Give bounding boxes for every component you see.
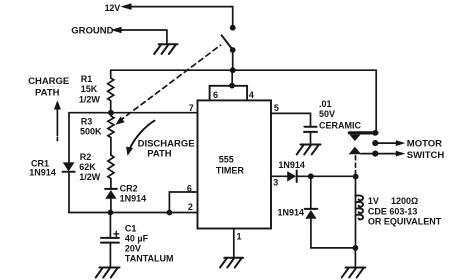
wire switch to supply rail <box>232 50 234 70</box>
svg-text:CDE 603-13: CDE 603-13 <box>368 206 418 216</box>
MOTOR terminal <box>372 140 378 146</box>
svg-text:GROUND: GROUND <box>71 26 113 37</box>
node bar junction <box>372 130 378 136</box>
svg-text:6: 6 <box>213 90 218 100</box>
node C1 junction <box>108 210 114 216</box>
ground symbol pin1 <box>220 258 243 268</box>
diode D1 1N914 series <box>287 171 296 181</box>
discharge curved arrow <box>129 121 154 150</box>
svg-text:R2: R2 <box>80 152 92 162</box>
wire pin3 to coil branch <box>297 175 356 177</box>
wire pin 5 <box>271 113 311 126</box>
wire pin 7 <box>69 112 198 114</box>
wire left branch down <box>68 113 70 163</box>
resistor R3 <box>108 113 114 155</box>
GROUND arrowhead <box>111 27 122 34</box>
IC 555 timer U1 <box>198 100 272 228</box>
svg-text:CR2: CR2 <box>120 184 138 194</box>
capacitor C1 <box>109 213 111 238</box>
svg-text:7: 7 <box>189 103 194 113</box>
svg-text:555: 555 <box>219 154 234 164</box>
svg-text:CERAMIC: CERAMIC <box>319 120 361 130</box>
relay coil L1 <box>355 156 357 177</box>
svg-text:CHARGE: CHARGE <box>28 76 69 87</box>
svg-text:1N914: 1N914 <box>29 168 56 178</box>
svg-text:OR EQUIVALENT: OR EQUIVALENT <box>368 217 442 227</box>
wire rail to bracket <box>231 70 233 86</box>
svg-text:1200Ω: 1200Ω <box>391 196 418 206</box>
bracket pins 6 and 4 <box>210 86 248 101</box>
ground symbol coil <box>342 268 366 278</box>
svg-text:4: 4 <box>249 90 254 100</box>
switch S1 <box>230 25 236 31</box>
diode CR1 <box>63 162 75 171</box>
resistor R1 <box>108 70 114 113</box>
svg-text:1/2W: 1/2W <box>79 94 101 104</box>
wire pin 1 <box>233 229 235 258</box>
connector plug lower <box>349 147 362 155</box>
node pin6 junction <box>167 210 173 216</box>
svg-text:1: 1 <box>237 232 242 242</box>
wire pin 6 <box>169 192 197 213</box>
svg-text:20V: 20V <box>125 243 141 253</box>
svg-text:12V: 12V <box>105 3 121 13</box>
node D2 junction <box>308 173 314 179</box>
svg-text:50V: 50V <box>319 109 335 119</box>
thick bar <box>349 131 377 134</box>
svg-text:R3: R3 <box>81 116 93 126</box>
node bracket junction <box>229 83 235 89</box>
svg-text:1V: 1V <box>368 196 379 206</box>
svg-text:15K: 15K <box>81 84 98 94</box>
node coil junction <box>353 174 359 180</box>
ground symbol ceramic cap <box>297 145 321 155</box>
discharge path annotation dashed arrow <box>120 45 221 121</box>
svg-text:TANTALUM: TANTALUM <box>125 254 174 264</box>
svg-text:1N914: 1N914 <box>120 194 147 204</box>
svg-text:1/2W: 1/2W <box>79 172 101 182</box>
svg-text:.01: .01 <box>319 99 332 109</box>
diode CR2 <box>105 188 117 190</box>
svg-text:3: 3 <box>273 177 278 187</box>
svg-text:5: 5 <box>274 103 279 113</box>
svg-text:SWITCH: SWITCH <box>407 150 445 161</box>
node pin7 / R1 junction <box>108 110 114 116</box>
wire 12V supply top <box>131 7 233 28</box>
svg-text:62K: 62K <box>79 162 96 172</box>
supply rail horizontal <box>111 69 377 71</box>
wire GROUND lead <box>121 30 167 43</box>
svg-text:C1: C1 <box>125 224 137 234</box>
svg-text:500K: 500K <box>80 127 102 137</box>
svg-text:MOTOR: MOTOR <box>407 138 442 149</box>
ground symbol top <box>154 44 177 54</box>
node rail junction <box>230 67 236 73</box>
ground symbol C1 <box>96 268 120 278</box>
bottom rail left <box>69 212 198 214</box>
svg-text:40 µF: 40 µF <box>125 234 149 244</box>
svg-text:R1: R1 <box>81 74 93 84</box>
svg-text:2: 2 <box>188 202 193 212</box>
SWITCH terminal <box>361 153 398 155</box>
svg-text:PATH: PATH <box>147 148 172 159</box>
wire pin 3 <box>271 175 287 177</box>
connector plug upper <box>350 135 361 141</box>
12V arrowhead <box>120 3 131 10</box>
svg-text:1N914: 1N914 <box>278 208 305 218</box>
svg-text:PATH: PATH <box>35 88 60 99</box>
diode D2 1N914 shunt <box>310 176 312 208</box>
svg-text:TIMER: TIMER <box>216 166 244 176</box>
node coil bottom junction <box>353 245 359 251</box>
resistor R2 <box>108 155 114 189</box>
svg-text:1N914: 1N914 <box>278 160 305 170</box>
capacitor .01 ceramic <box>304 126 316 128</box>
right rail down <box>375 70 377 131</box>
svg-text:6: 6 <box>187 183 192 193</box>
